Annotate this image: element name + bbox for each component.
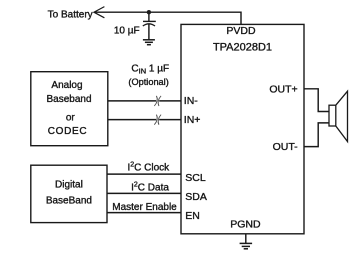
svg-text:I2C Clock: I2C Clock <box>127 162 170 174</box>
svg-text:CIN 1 µF: CIN 1 µF <box>131 64 169 76</box>
svg-text:OUT+: OUT+ <box>269 84 297 96</box>
svg-text:SCL: SCL <box>185 172 206 184</box>
svg-text:PGND: PGND <box>230 219 261 231</box>
svg-text:SDA: SDA <box>185 191 207 203</box>
svg-text:TPA2028D1: TPA2028D1 <box>213 42 272 54</box>
svg-text:Baseband: Baseband <box>46 94 91 105</box>
svg-text:Analog: Analog <box>51 80 82 91</box>
svg-text:IN-: IN- <box>184 95 199 107</box>
svg-text:I2C Data: I2C Data <box>131 182 169 194</box>
svg-text:To Battery: To Battery <box>48 10 93 21</box>
svg-text:Digital: Digital <box>55 180 83 191</box>
svg-text:OUT-: OUT- <box>273 141 299 153</box>
svg-text:BaseBand: BaseBand <box>46 196 92 207</box>
svg-text:or: or <box>66 112 76 123</box>
svg-text:Master Enable: Master Enable <box>112 202 177 213</box>
svg-text:EN: EN <box>185 210 200 222</box>
svg-text:CODEC: CODEC <box>48 126 88 137</box>
svg-text:PVDD: PVDD <box>226 25 256 37</box>
svg-text:IN+: IN+ <box>184 114 201 126</box>
svg-text:(Optional): (Optional) <box>128 77 168 87</box>
svg-text:10 µF: 10 µF <box>114 26 140 37</box>
